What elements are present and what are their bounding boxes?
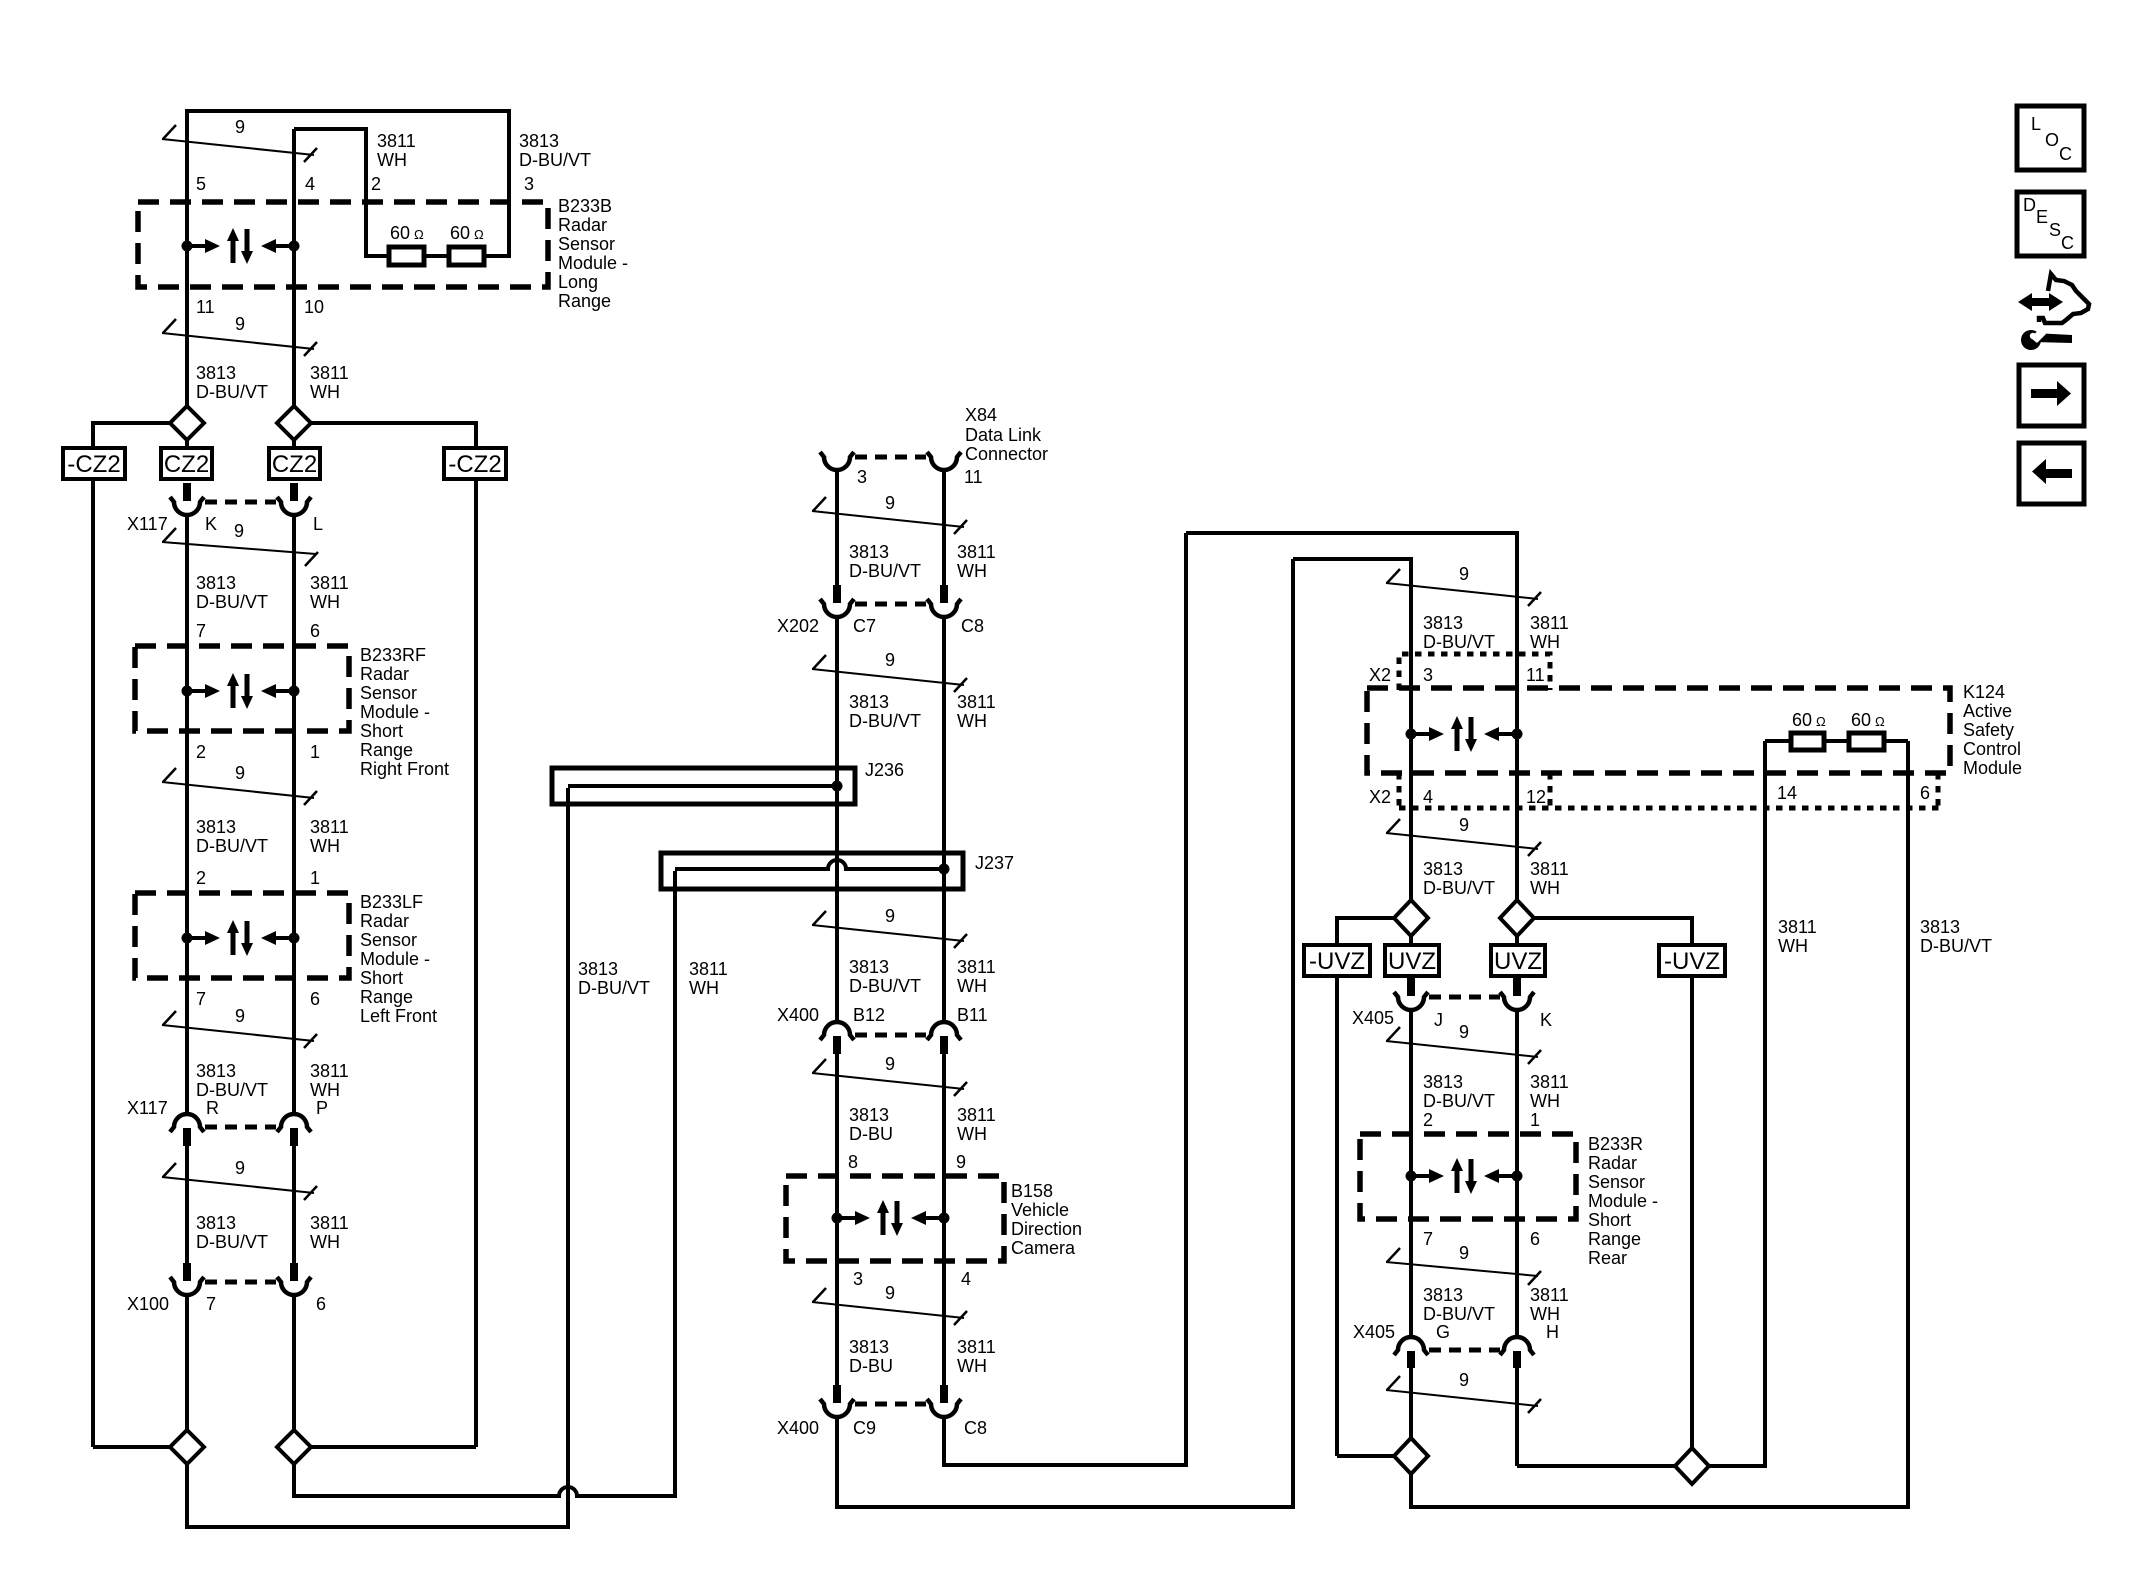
svg-text:11: 11 xyxy=(1526,665,1545,685)
wire 3811 WH left main (x=294) upper xyxy=(292,129,296,406)
wire 3813 X117 to X100 xyxy=(185,1146,189,1263)
splice diamond on 3813 at UVZ row xyxy=(1394,900,1428,936)
svg-text:Short: Short xyxy=(1588,1210,1631,1230)
wire 3813 X117 to B233RF xyxy=(185,515,189,646)
connector X405 terminal H (cup and pin) xyxy=(1500,1337,1534,1355)
svg-text:Short: Short xyxy=(360,968,403,988)
svg-text:D-BU: D-BU xyxy=(849,1356,893,1376)
svg-text:3813: 3813 xyxy=(196,573,236,593)
svg-text:B12: B12 xyxy=(853,1005,885,1025)
svg-text:WH: WH xyxy=(310,836,340,856)
splice pack J237 bar with hop xyxy=(661,853,963,889)
connector X84 terminal 3 (cup) xyxy=(820,452,854,470)
svg-text:3813: 3813 xyxy=(578,959,618,979)
svg-text:K: K xyxy=(1540,1010,1552,1030)
svg-text:D: D xyxy=(2023,195,2036,215)
svg-text:C: C xyxy=(2061,233,2074,253)
svg-text:Range: Range xyxy=(360,740,413,760)
svg-text:3811: 3811 xyxy=(957,1337,996,1357)
svg-text:1: 1 xyxy=(310,742,320,762)
K124 internal resistor network wires xyxy=(1765,739,1791,743)
svg-text:D-BU/VT: D-BU/VT xyxy=(1423,1091,1495,1111)
svg-text:Data Link: Data Link xyxy=(965,425,1042,445)
svg-text:3813: 3813 xyxy=(1423,613,1463,633)
svg-text:Ω: Ω xyxy=(1816,714,1826,729)
connector X2 upper dotted box xyxy=(1399,654,1550,690)
svg-text:10: 10 xyxy=(304,297,324,317)
svg-text:WH: WH xyxy=(1778,936,1808,956)
svg-text:8: 8 xyxy=(848,1152,858,1172)
svg-text:D-BU: D-BU xyxy=(849,1124,893,1144)
splice diamond on 3811 at UVZ row xyxy=(1500,900,1534,936)
net label -UVZ (left) xyxy=(1304,945,1370,976)
twisted pair symbol 9 (below B233B) xyxy=(162,333,314,349)
svg-text:Rear: Rear xyxy=(1588,1248,1627,1268)
svg-text:3813: 3813 xyxy=(1423,1072,1463,1092)
svg-text:Ω: Ω xyxy=(474,227,484,242)
twisted pair symbol 9 (below B158) xyxy=(812,1302,964,1318)
svg-text:9: 9 xyxy=(235,117,245,137)
resistor 60 ohm left (B233B) xyxy=(389,247,424,265)
svg-text:3: 3 xyxy=(524,174,534,194)
svg-text:D-BU/VT: D-BU/VT xyxy=(1423,878,1495,898)
wire -UVZ right down xyxy=(1690,976,1694,1448)
svg-text:D-BU/VT: D-BU/VT xyxy=(578,978,650,998)
B233R internal bus arrows xyxy=(1406,1158,1523,1194)
svg-text:WH: WH xyxy=(310,382,340,402)
wire 3813 X84 to X202 xyxy=(835,470,839,586)
svg-text:3811: 3811 xyxy=(310,573,349,593)
svg-text:J: J xyxy=(1434,1010,1443,1030)
svg-text:Module -: Module - xyxy=(1588,1191,1658,1211)
svg-text:3813: 3813 xyxy=(849,957,889,977)
twisted pair symbol 9 (below X84) xyxy=(812,511,964,527)
B233RF internal bus arrows xyxy=(182,673,300,709)
svg-text:2: 2 xyxy=(196,868,206,888)
wire 3813 B233RF to B233LF xyxy=(185,731,189,893)
twisted pair symbol 9 (top right) xyxy=(1386,583,1538,599)
connector X405 lower dashed line xyxy=(1429,1348,1500,1353)
svg-text:11: 11 xyxy=(196,297,215,317)
svg-text:Range: Range xyxy=(360,987,413,1007)
svg-text:3811: 3811 xyxy=(957,957,996,977)
svg-text:C9: C9 xyxy=(853,1418,876,1438)
svg-text:B233B: B233B xyxy=(558,196,612,216)
svg-text:9: 9 xyxy=(885,1283,895,1303)
svg-text:Left Front: Left Front xyxy=(360,1006,437,1026)
svg-text:11: 11 xyxy=(964,467,983,487)
wire 3813 riser top to X2 pin 3 xyxy=(1293,559,1411,900)
twisted pair symbol 9 (below X202) xyxy=(812,669,964,685)
svg-text:60: 60 xyxy=(390,223,410,243)
svg-text:3813: 3813 xyxy=(849,1105,889,1125)
wire 3813 B233R to X405 G xyxy=(1409,1219,1413,1337)
svg-text:B158: B158 xyxy=(1011,1181,1053,1201)
svg-text:J237: J237 xyxy=(975,853,1014,873)
svg-text:7: 7 xyxy=(196,621,206,641)
svg-text:Range: Range xyxy=(558,291,611,311)
svg-text:D-BU/VT: D-BU/VT xyxy=(849,976,921,996)
svg-text:3: 3 xyxy=(857,467,867,487)
svg-text:9: 9 xyxy=(1459,815,1469,835)
svg-text:4: 4 xyxy=(961,1269,971,1289)
svg-text:9: 9 xyxy=(235,314,245,334)
svg-text:D-BU/VT: D-BU/VT xyxy=(1920,936,1992,956)
svg-text:D-BU/VT: D-BU/VT xyxy=(196,1232,268,1252)
svg-text:9: 9 xyxy=(235,763,245,783)
connector X117 terminal P (cup and pin) xyxy=(277,1114,311,1132)
twisted pair symbol 9 (below J237) xyxy=(812,925,964,941)
svg-text:UVZ: UVZ xyxy=(1494,948,1542,975)
wire 3811 B233RF to B233LF xyxy=(292,731,296,893)
svg-text:3813: 3813 xyxy=(196,1061,236,1081)
svg-text:Vehicle: Vehicle xyxy=(1011,1200,1069,1220)
wire 3813 X100 to bottom splice xyxy=(185,1295,189,1430)
wire 3811 X2 to UVZ splice xyxy=(1515,813,1519,900)
svg-text:3811: 3811 xyxy=(310,817,349,837)
svg-text:3811: 3811 xyxy=(1778,917,1817,937)
svg-text:Active: Active xyxy=(1963,701,2012,721)
bottom splice diamond 3811 xyxy=(277,1430,311,1464)
wire 3811 B233R to X405 H xyxy=(1515,1219,1519,1337)
wire -CZ2 right down xyxy=(474,479,478,1447)
svg-text:3811: 3811 xyxy=(377,131,416,151)
svg-text:3811: 3811 xyxy=(310,1061,349,1081)
wire 3813 X2 to UVZ splice xyxy=(1409,813,1413,900)
svg-text:3813: 3813 xyxy=(519,131,559,151)
svg-text:D-BU/VT: D-BU/VT xyxy=(196,592,268,612)
connector X117 terminal L (pin and cup) xyxy=(290,483,298,501)
connector X117 terminal R (cup and pin) xyxy=(170,1114,204,1132)
svg-text:WH: WH xyxy=(310,592,340,612)
K124 internal bus arrows xyxy=(1406,716,1523,752)
bottom splice diamond 3813 right xyxy=(1394,1438,1428,1474)
connector X405 terminal K (pin and cup) xyxy=(1513,978,1521,996)
svg-text:9: 9 xyxy=(885,493,895,513)
connector X400 dashed line xyxy=(855,1033,926,1038)
svg-text:4: 4 xyxy=(305,174,315,194)
svg-text:UVZ: UVZ xyxy=(1388,948,1436,975)
svg-text:1: 1 xyxy=(1530,1110,1540,1130)
icon LOC button xyxy=(2017,106,2084,170)
net label UVZ (3813) xyxy=(1385,945,1439,976)
connector X202 dashed line xyxy=(855,602,926,607)
svg-text:3811: 3811 xyxy=(1530,859,1569,879)
twisted pair symbol 9 (below X117 R/P) xyxy=(162,1177,314,1193)
svg-text:X405: X405 xyxy=(1352,1008,1394,1028)
svg-text:Module -: Module - xyxy=(360,702,430,722)
connector dotted box pins 14/6 xyxy=(1936,773,1941,808)
svg-text:Short: Short xyxy=(360,721,403,741)
svg-text:9: 9 xyxy=(885,650,895,670)
svg-text:Right Front: Right Front xyxy=(360,759,449,779)
svg-text:3811: 3811 xyxy=(1530,1072,1569,1092)
wire 3813 X405 to B233R xyxy=(1409,1010,1413,1134)
connector X100 terminal 7 (pin and cup) xyxy=(183,1263,191,1281)
svg-text:Safety: Safety xyxy=(1963,720,2014,740)
wire 3813 X400 to B158 xyxy=(835,1054,839,1176)
svg-text:3813: 3813 xyxy=(1920,917,1960,937)
svg-text:3813: 3813 xyxy=(196,1213,236,1233)
svg-text:Sensor: Sensor xyxy=(1588,1172,1645,1192)
svg-text:C8: C8 xyxy=(964,1418,987,1438)
wire 3813 B233LF to X117 R xyxy=(185,978,189,1114)
svg-text:X202: X202 xyxy=(777,616,819,636)
radar sensor module B233R box xyxy=(1360,1134,1576,1219)
svg-text:6: 6 xyxy=(310,989,320,1009)
bottom splice diamond -UVZ right xyxy=(1675,1448,1709,1484)
svg-text:X400: X400 xyxy=(777,1418,819,1438)
svg-text:3813: 3813 xyxy=(849,542,889,562)
connector X400 terminal B12 (cup and pin) xyxy=(820,1022,854,1040)
svg-text:E: E xyxy=(2036,207,2048,227)
svg-text:Module: Module xyxy=(1963,758,2022,778)
wire -UVZ left to splice xyxy=(1337,1454,1394,1458)
wire 3811 X117 to B233RF xyxy=(292,515,296,646)
wire 3811 X117 to X100 xyxy=(292,1146,296,1263)
wires through B233RF xyxy=(185,646,189,731)
svg-text:Module -: Module - xyxy=(360,949,430,969)
svg-text:2: 2 xyxy=(371,174,381,194)
svg-text:WH: WH xyxy=(957,561,987,581)
wire 3811 X100 to bottom splice xyxy=(292,1295,296,1430)
wires through B233LF xyxy=(185,893,189,978)
twisted pair symbol 9 (below B233R) xyxy=(1386,1262,1538,1276)
icon vehicle comparison (double arrow, car outline, wrench) xyxy=(2018,274,2089,350)
wire diamond to CZ2 (3813) xyxy=(185,440,189,450)
svg-text:3813: 3813 xyxy=(196,363,236,383)
svg-text:B233R: B233R xyxy=(1588,1134,1643,1154)
wire 3811 splice to J237 riser with hop xyxy=(294,871,675,1496)
svg-text:3: 3 xyxy=(853,1269,863,1289)
svg-text:Range: Range xyxy=(1588,1229,1641,1249)
svg-text:3813: 3813 xyxy=(849,692,889,712)
svg-text:Long: Long xyxy=(558,272,598,292)
net label -UVZ (right) xyxy=(1659,945,1725,976)
svg-text:S: S xyxy=(2049,220,2061,240)
connector X100 dashed line xyxy=(205,1280,276,1285)
active safety control module K124 box xyxy=(1367,688,1950,773)
net label -CZ2 (left) xyxy=(63,448,125,479)
svg-text:X2: X2 xyxy=(1369,665,1391,685)
svg-text:D-BU/VT: D-BU/VT xyxy=(196,836,268,856)
twisted pair symbol 9 (below B233LF) xyxy=(162,1025,314,1041)
svg-text:Radar: Radar xyxy=(558,215,607,235)
svg-text:B233RF: B233RF xyxy=(360,645,426,665)
svg-text:3811: 3811 xyxy=(310,363,349,383)
wire 3811 bottom row to resistor pin 14 xyxy=(1517,741,1765,1466)
splice pack J236 bar xyxy=(552,768,855,804)
wire 3811 X400 to right section riser xyxy=(944,533,1186,1465)
connector X405 dashed line xyxy=(1429,995,1500,1000)
wire to -CZ2 left xyxy=(93,423,170,450)
svg-text:3811: 3811 xyxy=(689,959,728,979)
svg-text:R: R xyxy=(206,1098,219,1118)
svg-text:WH: WH xyxy=(1530,1091,1560,1111)
wire 3811 top loop from pin 4 to pin 2 xyxy=(294,129,389,256)
svg-text:Camera: Camera xyxy=(1011,1238,1076,1258)
svg-text:9: 9 xyxy=(1459,1022,1469,1042)
svg-text:C7: C7 xyxy=(853,616,876,636)
svg-text:3811: 3811 xyxy=(1530,613,1569,633)
svg-text:X117: X117 xyxy=(127,1098,168,1118)
svg-text:C: C xyxy=(2059,144,2072,164)
svg-text:6: 6 xyxy=(316,1294,326,1314)
svg-text:K: K xyxy=(205,514,217,534)
wire 3811 X202 to X400 xyxy=(942,617,946,1022)
svg-text:Connector: Connector xyxy=(965,444,1048,464)
svg-text:C8: C8 xyxy=(961,616,984,636)
svg-text:L: L xyxy=(313,514,323,534)
svg-text:9: 9 xyxy=(235,1158,245,1178)
svg-text:X405: X405 xyxy=(1353,1322,1395,1342)
connector X400 lower dashed line xyxy=(855,1402,926,1407)
wire -CZ2 left to splice xyxy=(93,1445,170,1449)
connector X84 dashed line xyxy=(855,455,926,460)
svg-text:X100: X100 xyxy=(127,1294,169,1314)
svg-text:-UVZ: -UVZ xyxy=(1664,948,1720,975)
svg-text:Radar: Radar xyxy=(1588,1153,1637,1173)
svg-text:WH: WH xyxy=(1530,1304,1560,1324)
resistor 60 ohm right (B233B) xyxy=(449,247,484,265)
twisted pair symbol 9 (below B233RF) xyxy=(162,782,314,798)
wire to -CZ2 right xyxy=(311,423,476,450)
connector X84 terminal 11 (cup) xyxy=(927,452,961,470)
svg-text:Ω: Ω xyxy=(1875,714,1885,729)
svg-text:3: 3 xyxy=(1423,665,1433,685)
bottom splice diamond 3813 xyxy=(170,1430,204,1464)
svg-text:9: 9 xyxy=(1459,564,1469,584)
connector X117 lower dashed line xyxy=(205,1125,276,1130)
wire to -UVZ right xyxy=(1534,918,1692,945)
svg-text:60: 60 xyxy=(1851,710,1871,730)
connector X400 terminal C9 (pin and cup) xyxy=(833,1385,841,1403)
icon DESC button xyxy=(2017,192,2084,256)
svg-text:J236: J236 xyxy=(865,760,904,780)
net label UVZ (3811) xyxy=(1491,945,1545,976)
svg-text:5: 5 xyxy=(196,174,206,194)
wire 3813 splice to resistor pin 6 xyxy=(1411,741,1908,1507)
svg-text:9: 9 xyxy=(956,1152,966,1172)
wire 3811 X405 to bottom row xyxy=(1515,1368,1519,1466)
resistor 60 ohm right (K124) xyxy=(1849,733,1884,750)
svg-text:3811: 3811 xyxy=(310,1213,349,1233)
svg-text:D-BU/VT: D-BU/VT xyxy=(849,561,921,581)
wire 3811 B233LF to X117 P xyxy=(292,978,296,1114)
connector X100 terminal 6 (pin and cup) xyxy=(290,1263,298,1281)
svg-text:3813: 3813 xyxy=(196,817,236,837)
wires through K124 xyxy=(1409,688,1413,773)
svg-text:7: 7 xyxy=(196,989,206,1009)
svg-text:12: 12 xyxy=(1526,787,1546,807)
svg-text:-CZ2: -CZ2 xyxy=(448,451,501,478)
svg-text:4: 4 xyxy=(1423,787,1433,807)
wires through B158 xyxy=(835,1176,839,1261)
B233B internal bus arrows xyxy=(182,228,300,264)
wire 3811 riser top to X2 pin 11 xyxy=(1186,533,1517,900)
svg-text:3811: 3811 xyxy=(957,692,996,712)
svg-text:D-BU/VT: D-BU/VT xyxy=(1423,632,1495,652)
svg-text:CZ2: CZ2 xyxy=(272,451,317,478)
svg-text:Sensor: Sensor xyxy=(360,930,417,950)
svg-text:WH: WH xyxy=(689,978,719,998)
wire segment between resistors xyxy=(424,254,449,258)
svg-text:WH: WH xyxy=(310,1232,340,1252)
svg-text:3811: 3811 xyxy=(1530,1285,1569,1305)
svg-text:14: 14 xyxy=(1777,783,1797,803)
svg-text:X84: X84 xyxy=(965,405,997,425)
radar sensor module B233RF box xyxy=(135,646,349,731)
twisted pair symbol 9 (below X117 K/L) xyxy=(162,542,316,554)
svg-text:G: G xyxy=(1436,1322,1450,1342)
connector X202 terminal C7 (pin and cup) xyxy=(833,585,841,603)
net label -CZ2 (right) xyxy=(444,448,506,479)
B158 internal bus arrows xyxy=(832,1200,950,1236)
svg-text:X400: X400 xyxy=(777,1005,819,1025)
svg-text:WH: WH xyxy=(957,1124,987,1144)
wire 3813 B158 to X400 C9 xyxy=(835,1261,839,1386)
icon next arrow button xyxy=(2019,365,2084,426)
wires through B233R xyxy=(1409,1134,1413,1219)
connector X202 terminal C8 (pin and cup) xyxy=(940,585,948,603)
svg-text:WH: WH xyxy=(310,1080,340,1100)
wire 3813 top loop from pin 5 to pin 3 xyxy=(187,111,509,256)
svg-text:D-BU/VT: D-BU/VT xyxy=(849,711,921,731)
wire 3811 X84 to X202 xyxy=(942,470,946,586)
wire 3811 B158 to X400 C8 xyxy=(942,1261,946,1386)
wire 3813 X405 to bottom splice xyxy=(1409,1368,1413,1438)
connector X117 dashed line xyxy=(205,500,276,505)
svg-text:CZ2: CZ2 xyxy=(164,451,209,478)
wire diamond to CZ2 (3811) xyxy=(292,440,296,450)
svg-text:6: 6 xyxy=(1530,1229,1540,1249)
svg-text:H: H xyxy=(1546,1322,1559,1342)
svg-text:O: O xyxy=(2045,130,2059,150)
twisted pair symbol 9 (below X405 J/K) xyxy=(1386,1041,1538,1057)
radar sensor module B233B box xyxy=(138,202,548,287)
wire -CZ2 left down xyxy=(91,479,95,1447)
wire -UVZ left down xyxy=(1335,976,1339,1456)
svg-text:3813: 3813 xyxy=(849,1337,889,1357)
svg-text:3813: 3813 xyxy=(1423,859,1463,879)
connector X2 lower dotted box xyxy=(1397,773,1402,808)
svg-text:2: 2 xyxy=(196,742,206,762)
twisted pair symbol 9 (below X2) xyxy=(1386,833,1538,849)
wire diamond to UVZ (3813) xyxy=(1409,936,1413,947)
splice diamond on 3813 at CZ2 row xyxy=(170,406,204,440)
svg-text:9: 9 xyxy=(234,521,244,541)
svg-text:WH: WH xyxy=(957,976,987,996)
wire 3813 X202 to X400 xyxy=(835,617,839,1022)
svg-text:60: 60 xyxy=(450,223,470,243)
svg-text:WH: WH xyxy=(1530,632,1560,652)
svg-text:2: 2 xyxy=(1423,1110,1433,1130)
svg-text:9: 9 xyxy=(235,1006,245,1026)
wire 3813 D-BU/VT left main (x=187) upper xyxy=(185,109,189,406)
svg-text:60: 60 xyxy=(1792,710,1812,730)
svg-text:WH: WH xyxy=(957,711,987,731)
svg-text:-CZ2: -CZ2 xyxy=(67,451,120,478)
svg-text:Sensor: Sensor xyxy=(360,683,417,703)
resistor 60 ohm left (K124) xyxy=(1791,733,1824,750)
connector X400 terminal B11 (cup and pin) xyxy=(927,1022,961,1040)
svg-text:7: 7 xyxy=(1423,1229,1433,1249)
svg-text:WH: WH xyxy=(1530,878,1560,898)
svg-text:9: 9 xyxy=(885,1054,895,1074)
connector X400 terminal C8 (pin and cup) xyxy=(940,1385,948,1403)
svg-text:9: 9 xyxy=(1459,1370,1469,1390)
vehicle direction camera B158 box xyxy=(786,1176,1004,1261)
